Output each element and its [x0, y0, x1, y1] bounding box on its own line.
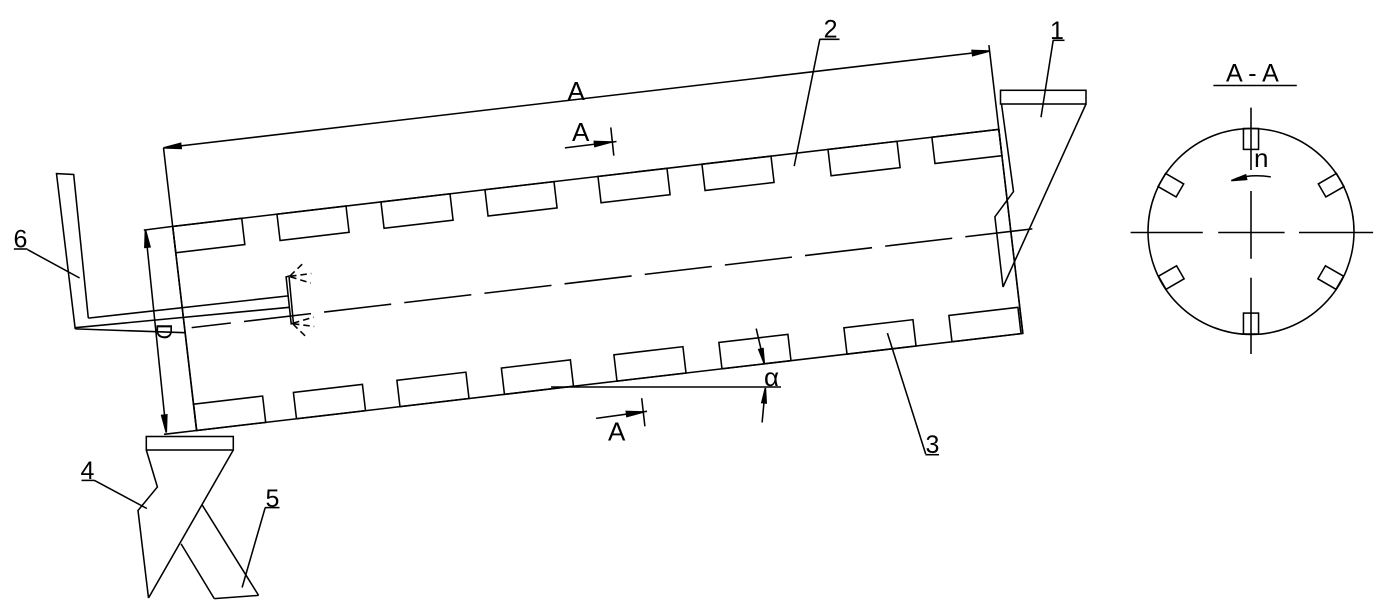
svg-text:n: n — [1254, 143, 1268, 173]
nozzle spray bottom rays — [293, 317, 314, 338]
rotation arrow — [1236, 176, 1271, 179]
svg-text:α: α — [764, 362, 779, 392]
svg-text:A: A — [572, 117, 590, 147]
label 1 — [1041, 17, 1065, 117]
label 2 — [794, 15, 839, 166]
section flight at 6 o'clock — [1243, 313, 1258, 334]
section flight at 4 o'clock — [1318, 266, 1344, 290]
top flight T3 — [381, 194, 453, 228]
discharge hopper 4: left wall with notch — [138, 450, 157, 598]
top flight T6 — [702, 156, 774, 190]
discharge hopper 4: top band — [146, 437, 233, 451]
burner 6: vertical arm outline — [57, 174, 89, 329]
bottom flight B3 (item 3) — [397, 372, 469, 406]
section flight at 2 o'clock — [1318, 173, 1344, 197]
bottom flight B4 (item 3) — [501, 360, 573, 394]
bottom flight B8 (item 3) — [949, 307, 1021, 341]
drum outline 2 — [173, 129, 1023, 430]
vertical centerline — [1250, 108, 1252, 354]
left end extension line (dimension A left) — [164, 148, 197, 431]
label 5 — [242, 485, 279, 588]
bottom flight B1 (item 3) — [194, 396, 266, 430]
bottom flight B2 (item 3) — [293, 384, 365, 418]
right end extension line (dimension A right) — [989, 45, 1023, 333]
nozzle spray top rays — [290, 262, 311, 283]
svg-text:A: A — [608, 417, 626, 447]
section view A-A — [1131, 59, 1374, 354]
top flight T8 — [932, 129, 1002, 163]
top flight T2 — [277, 206, 349, 240]
chute 5: upper edge — [202, 505, 259, 596]
section mark A lower: arrow — [596, 411, 647, 418]
svg-text:A - A: A - A — [1226, 59, 1279, 87]
section flight at 8 o'clock — [1158, 266, 1184, 290]
dim D top arrowhead — [145, 230, 150, 248]
discharge hopper 4: right wall — [149, 450, 234, 598]
chute 5: end edge — [214, 595, 258, 598]
top wall extension to D dimension — [144, 226, 173, 230]
bottom flight B5 (item 3) — [614, 347, 686, 381]
dimension line D — [145, 230, 166, 433]
feed hopper 1: left wall with jog — [995, 104, 1014, 287]
label 4 — [81, 457, 147, 509]
angle alpha: upper arrow — [756, 329, 763, 360]
top flight T1 — [173, 218, 245, 252]
drum axis centerline — [192, 229, 1033, 328]
chute 5: lower edge — [181, 544, 214, 599]
burner pipe upper line — [88, 296, 288, 318]
burner leg bottom edge — [75, 329, 185, 333]
section circle (drum shell) — [1148, 129, 1354, 335]
dimension line A — [164, 51, 990, 148]
bottom wall extension to D dimension — [164, 431, 197, 435]
burner nozzle plate — [286, 276, 293, 324]
section flight at 12 o'clock — [1243, 129, 1258, 150]
dim A right arrowhead — [972, 50, 990, 55]
section mark A lower: tick — [642, 398, 645, 426]
drum shell (rotated frame) — [173, 127, 1045, 431]
feed hopper 1: top band — [1001, 90, 1087, 104]
svg-text:5: 5 — [266, 485, 280, 513]
dim A left arrowhead — [164, 143, 182, 148]
top flight T7 — [828, 141, 900, 175]
angle alpha: lower arrow — [762, 392, 765, 423]
top flight T4 — [485, 182, 557, 216]
bottom flight B6 (item 3) — [719, 334, 791, 368]
bottom flight B7 (item 3) — [844, 320, 916, 354]
dim D bottom arrowhead — [162, 415, 167, 433]
svg-text:A: A — [568, 76, 586, 106]
label 3 — [887, 333, 939, 459]
label 6 — [14, 226, 80, 279]
horizontal centerline — [1131, 232, 1374, 234]
angle alpha: horizontal reference line — [551, 386, 781, 388]
burner pipe lower line — [75, 307, 289, 327]
section mark A upper: arrow — [565, 142, 617, 148]
section flight at 10 o'clock — [1158, 173, 1184, 197]
feed hopper 1: right wall — [1003, 104, 1086, 287]
section mark A upper: tick — [611, 127, 614, 155]
top flight T5 — [598, 168, 670, 202]
